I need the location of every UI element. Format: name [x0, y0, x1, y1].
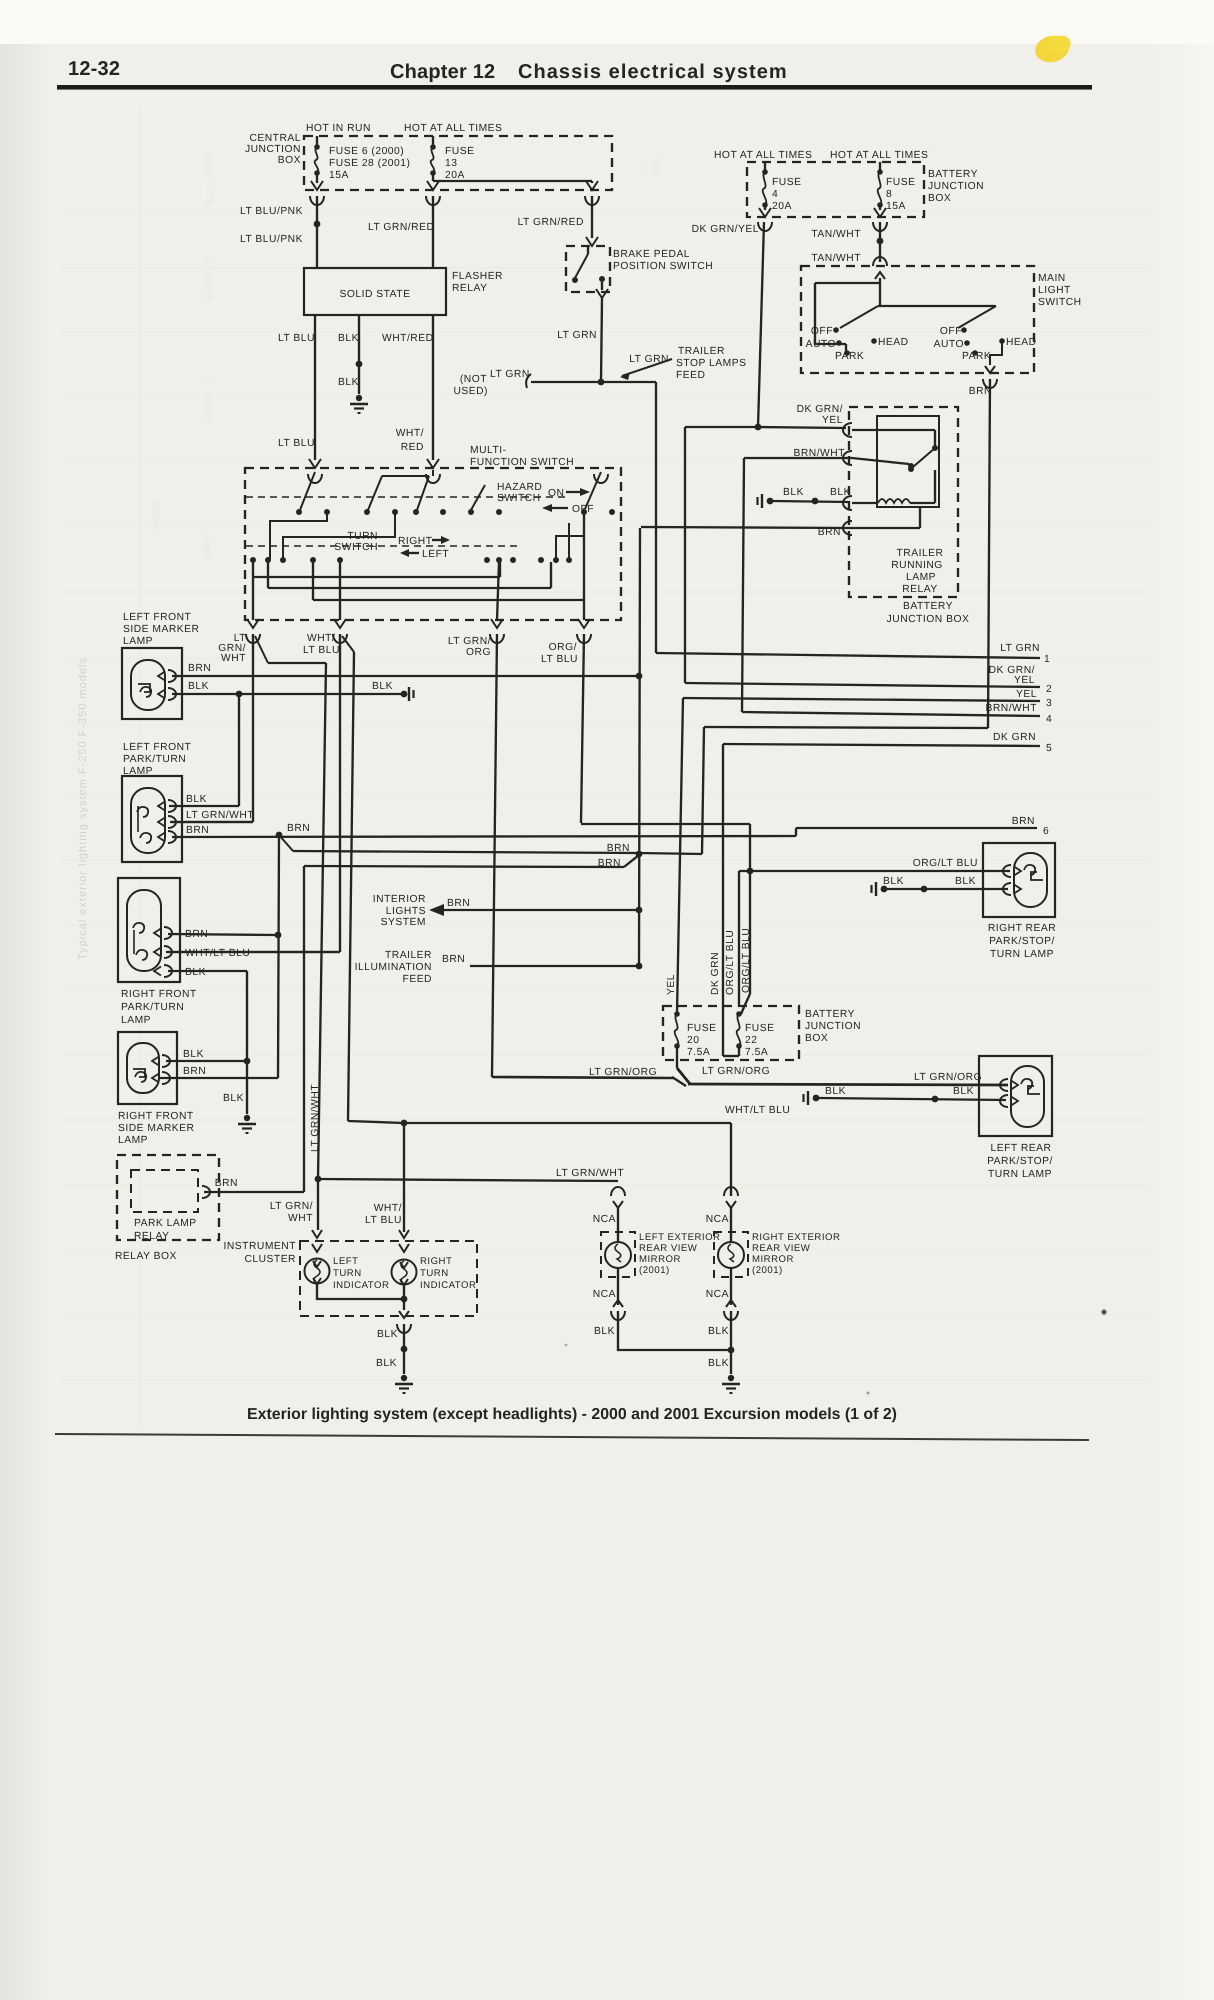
svg-text:BRN: BRN: [186, 825, 209, 836]
svg-text:LT GRN/RED: LT GRN/RED: [518, 217, 584, 228]
svg-text:LT GRN: LT GRN: [557, 330, 597, 341]
svg-text:DK GRN/YEL: DK GRN/YEL: [692, 224, 759, 235]
svg-text:BLK: BLK: [955, 876, 976, 887]
svg-text:RIGHT REAR: RIGHT REAR: [988, 923, 1056, 934]
svg-text:INTERIOR: INTERIOR: [373, 894, 426, 905]
svg-text:(2001): (2001): [639, 1265, 670, 1276]
svg-text:7.5A: 7.5A: [687, 1047, 710, 1058]
svg-text:AUTO: AUTO: [934, 339, 964, 350]
svg-text:FUSE: FUSE: [445, 146, 474, 157]
svg-text:POSITION SWITCH: POSITION SWITCH: [613, 261, 713, 272]
svg-text:BRN: BRN: [447, 898, 470, 909]
svg-text:RED: RED: [401, 442, 424, 453]
svg-text:RELAY BOX: RELAY BOX: [115, 1251, 177, 1262]
svg-text:JUNCTION BOX: JUNCTION BOX: [887, 614, 970, 625]
svg-text:WHT/: WHT/: [374, 1203, 402, 1214]
svg-text:INDICATOR: INDICATOR: [420, 1280, 476, 1291]
svg-text:SWITCH: SWITCH: [334, 542, 378, 553]
svg-text:FUSE: FUSE: [745, 1023, 774, 1034]
svg-text:LAMP: LAMP: [118, 1135, 148, 1146]
svg-text:BOX: BOX: [278, 155, 301, 166]
svg-text:LIGHT: LIGHT: [1038, 285, 1071, 296]
svg-text:FUNCTION SWITCH: FUNCTION SWITCH: [470, 457, 574, 468]
svg-text:OFF: OFF: [940, 326, 962, 337]
svg-text:12-32: 12-32: [68, 58, 120, 80]
svg-text:FLASHER: FLASHER: [452, 271, 503, 282]
svg-text:5: 5: [1046, 743, 1052, 754]
svg-text:SWITCH: SWITCH: [497, 493, 541, 504]
svg-text:BLK: BLK: [376, 1358, 397, 1369]
svg-text:HOT AT ALL TIMES: HOT AT ALL TIMES: [714, 150, 812, 161]
svg-text:PARK: PARK: [835, 351, 864, 362]
svg-text:WHT/: WHT/: [396, 428, 424, 439]
svg-text:TRAILER: TRAILER: [678, 346, 725, 357]
svg-text:MAIN: MAIN: [1038, 273, 1066, 284]
svg-text:13: 13: [445, 158, 457, 169]
svg-text:FUSE 6 (2000): FUSE 6 (2000): [329, 146, 404, 157]
svg-text:BOX: BOX: [805, 1033, 828, 1044]
svg-text:1: 1: [1044, 654, 1050, 665]
svg-text:LEFT: LEFT: [333, 1256, 358, 1267]
svg-text:BRN: BRN: [598, 858, 621, 869]
svg-text:ILLUMINATION: ILLUMINATION: [355, 962, 432, 973]
svg-text:BLK: BLK: [783, 487, 804, 498]
svg-text:SIDE MARKER: SIDE MARKER: [123, 624, 199, 635]
svg-text:YEL: YEL: [1014, 675, 1035, 686]
svg-text:LEFT REAR: LEFT REAR: [991, 1143, 1052, 1154]
svg-text:RELAY: RELAY: [902, 584, 938, 595]
svg-text:ln: ln: [930, 143, 938, 152]
svg-text:LAMP: LAMP: [121, 1015, 151, 1026]
svg-text:YEL: YEL: [1016, 689, 1037, 700]
svg-text:LT GRN: LT GRN: [490, 369, 530, 380]
svg-text:FUSE: FUSE: [772, 177, 801, 188]
svg-text:LT BLU/PNK: LT BLU/PNK: [240, 206, 303, 217]
svg-text:BLK: BLK: [825, 1086, 846, 1097]
svg-text:TAN/WHT: TAN/WHT: [811, 253, 861, 264]
svg-text:CENTRAL: CENTRAL: [249, 133, 301, 144]
svg-text:REAR VIEW: REAR VIEW: [639, 1243, 698, 1254]
svg-text:ORG/: ORG/: [549, 642, 577, 653]
svg-text:BLK: BLK: [594, 1326, 615, 1337]
svg-text:SMRT: SMRT: [202, 529, 213, 560]
svg-text:BRN: BRN: [188, 663, 211, 674]
svg-text:BLK: BLK: [183, 1049, 204, 1060]
svg-text:LT GRN/ORG: LT GRN/ORG: [702, 1066, 770, 1077]
svg-text:YEL: YEL: [666, 974, 677, 995]
svg-text:BLK: BLK: [188, 681, 209, 692]
svg-text:6: 6: [1043, 826, 1049, 837]
svg-text:RRL: RRL: [652, 153, 663, 175]
svg-text:WHT: WHT: [221, 653, 246, 664]
svg-text:BRN: BRN: [1012, 816, 1035, 827]
svg-text:BLK: BLK: [223, 1093, 244, 1104]
svg-text:Typical exterior lighting syst: Typical exterior lighting system F-250 F…: [77, 657, 89, 960]
svg-text:FUSE: FUSE: [886, 177, 915, 188]
svg-text:BRAKE PEDAL: BRAKE PEDAL: [613, 249, 690, 260]
svg-text:4: 4: [1046, 714, 1052, 725]
svg-text:JUNCTION: JUNCTION: [805, 1021, 861, 1032]
svg-text:WHT/: WHT/: [307, 633, 335, 644]
svg-text:OFF: OFF: [811, 326, 833, 337]
svg-text:RIGHT EXTERIOR: RIGHT EXTERIOR: [752, 1232, 840, 1243]
svg-text:PARK/TURN: PARK/TURN: [121, 1002, 184, 1013]
svg-text:FEED: FEED: [676, 370, 705, 381]
svg-text:DK GRN: DK GRN: [993, 732, 1036, 743]
svg-text:LT GRN/WHT: LT GRN/WHT: [186, 810, 254, 821]
svg-text:JUNCTION: JUNCTION: [245, 144, 301, 155]
svg-text:TRAILER: TRAILER: [385, 950, 432, 961]
svg-text:USED): USED): [453, 386, 488, 397]
svg-text:PARK: PARK: [962, 351, 991, 362]
svg-text:BLK: BLK: [377, 1329, 398, 1340]
svg-text:RUNNING: RUNNING: [891, 560, 943, 571]
svg-text:LT BLU: LT BLU: [365, 1215, 402, 1226]
svg-text:DK GRN/: DK GRN/: [797, 404, 843, 415]
svg-text:HEAD: HEAD: [878, 337, 909, 348]
svg-text:RIGHT: RIGHT: [398, 536, 433, 547]
svg-text:YEL: YEL: [822, 415, 843, 426]
svg-text:BATTERY: BATTERY: [903, 601, 953, 612]
svg-text:LAMP: LAMP: [906, 572, 936, 583]
svg-text:NCA: NCA: [593, 1214, 616, 1225]
svg-text:7.5A: 7.5A: [745, 1047, 768, 1058]
svg-text:LT BLU: LT BLU: [541, 654, 578, 665]
svg-text:CLUSTER: CLUSTER: [244, 1254, 296, 1265]
svg-text:Exterior lighting system (exce: Exterior lighting system (except headlig…: [247, 1406, 897, 1423]
svg-text:TRAILER: TRAILER: [897, 548, 944, 559]
svg-text:LT GRN/WHT: LT GRN/WHT: [310, 1084, 321, 1152]
svg-text:NCA: NCA: [706, 1214, 729, 1225]
svg-text:BLK: BLK: [372, 681, 393, 692]
svg-text:ORG: ORG: [466, 647, 491, 658]
svg-text:WHT/LT BLU: WHT/LT BLU: [725, 1105, 790, 1116]
svg-text:TURN: TURN: [333, 1268, 362, 1279]
svg-text:BLK: BLK: [708, 1326, 729, 1337]
svg-text:LT GRN/ORG: LT GRN/ORG: [589, 1067, 657, 1078]
svg-text:LT BLU: LT BLU: [303, 645, 340, 656]
svg-text:BLK: BLK: [338, 333, 359, 344]
svg-text:SIDE MARKER: SIDE MARKER: [118, 1123, 194, 1134]
svg-text:MOOR T: MOOR T: [205, 256, 216, 300]
svg-text:LT GRN/ORG: LT GRN/ORG: [914, 1072, 982, 1083]
svg-text:BRN/WHT: BRN/WHT: [985, 703, 1037, 714]
svg-text:SWITCH: SWITCH: [1038, 297, 1082, 308]
svg-text:INSTRUMENT: INSTRUMENT: [224, 1241, 297, 1252]
svg-text:NCA: NCA: [593, 1289, 616, 1300]
svg-text:LT GRN: LT GRN: [1000, 643, 1040, 654]
svg-text:REAR VIEW: REAR VIEW: [752, 1243, 811, 1254]
svg-text:HEAD: HEAD: [1006, 337, 1037, 348]
svg-text:FEED: FEED: [403, 974, 432, 985]
svg-text:3: 3: [1046, 698, 1052, 709]
svg-text:BLK: BLK: [708, 1358, 729, 1369]
svg-text:NCA: NCA: [706, 1289, 729, 1300]
svg-text:HOT AT ALL TIMES: HOT AT ALL TIMES: [404, 123, 502, 134]
svg-text:LAMP: LAMP: [123, 636, 153, 647]
svg-text:FUSE 28 (2001): FUSE 28 (2001): [329, 158, 410, 169]
svg-text:(2001): (2001): [752, 1265, 783, 1276]
svg-text:BRN: BRN: [183, 1066, 206, 1077]
svg-text:20A: 20A: [445, 170, 465, 181]
svg-text:INDICATOR: INDICATOR: [333, 1280, 389, 1291]
svg-text:TURN LAMP: TURN LAMP: [988, 1169, 1052, 1180]
svg-text:22: 22: [745, 1035, 757, 1046]
svg-text:8: 8: [886, 189, 892, 200]
svg-text:DK GRN: DK GRN: [710, 952, 721, 995]
svg-text:HAZARD: HAZARD: [497, 482, 542, 493]
svg-text:(NOT: (NOT: [460, 374, 487, 385]
svg-text:ROOF L: ROOF L: [204, 379, 215, 420]
svg-text:15A: 15A: [886, 201, 906, 212]
svg-text:WHT/RED: WHT/RED: [382, 333, 434, 344]
svg-text:ORG/LT BLU: ORG/LT BLU: [913, 858, 978, 869]
svg-text:STOP LAMPS: STOP LAMPS: [676, 358, 746, 369]
svg-text:AUTO: AUTO: [806, 339, 836, 350]
svg-text:TURN LAMP: TURN LAMP: [990, 949, 1054, 960]
svg-text:BRN: BRN: [969, 386, 992, 397]
svg-text:LT GRN/RED: LT GRN/RED: [368, 222, 434, 233]
svg-text:2: 2: [1046, 684, 1052, 695]
svg-text:rt: rt: [640, 163, 647, 172]
svg-text:PARK/TURN: PARK/TURN: [123, 754, 186, 765]
svg-text:LEFT FRONT: LEFT FRONT: [123, 612, 192, 623]
svg-text:BLK: BLK: [883, 876, 904, 887]
svg-text:Chassis electrical system: Chassis electrical system: [518, 61, 788, 83]
svg-text:BRN: BRN: [607, 843, 630, 854]
svg-text:BATTERY: BATTERY: [928, 169, 978, 180]
svg-text:20A: 20A: [772, 201, 792, 212]
svg-text:RELAY: RELAY: [452, 283, 488, 294]
svg-text:MIRROR: MIRROR: [639, 1254, 681, 1265]
svg-text:LT BLU/PNK: LT BLU/PNK: [240, 234, 303, 245]
svg-text:LEFT: LEFT: [422, 549, 449, 560]
svg-text:HOT AT ALL TIMES: HOT AT ALL TIMES: [830, 150, 928, 161]
svg-text:RIGHT FRONT: RIGHT FRONT: [121, 989, 197, 1000]
svg-text:WHT/LT BLU: WHT/LT BLU: [185, 948, 250, 959]
svg-text:BULL PDR: BULL PDR: [205, 151, 216, 205]
svg-text:RELAY: RELAY: [134, 1231, 170, 1242]
svg-text:LEFT EXTERIOR: LEFT EXTERIOR: [639, 1232, 721, 1243]
svg-text:LT GRN/: LT GRN/: [448, 636, 491, 647]
svg-text:15A: 15A: [329, 170, 349, 181]
svg-text:ORG/LT BLU: ORG/LT BLU: [741, 928, 752, 993]
svg-text:HOT IN RUN: HOT IN RUN: [306, 123, 371, 134]
svg-text:4: 4: [772, 189, 778, 200]
svg-text:ORG/LT BLU: ORG/LT BLU: [725, 930, 736, 995]
svg-text:MIRROR: MIRROR: [752, 1254, 794, 1265]
svg-text:TAN/WHT: TAN/WHT: [811, 229, 861, 240]
svg-text:BATTERY: BATTERY: [805, 1009, 855, 1020]
svg-text:PARK/STOP/: PARK/STOP/: [987, 1156, 1053, 1167]
svg-text:LT BLU: LT BLU: [278, 333, 315, 344]
svg-text:FUSE: FUSE: [687, 1023, 716, 1034]
svg-text:PARK/STOP/: PARK/STOP/: [989, 936, 1055, 947]
svg-text:WHT: WHT: [288, 1213, 313, 1224]
svg-text:BOX: BOX: [928, 193, 951, 204]
svg-text:Chapter 12: Chapter 12: [390, 61, 495, 83]
svg-text:LT BLU: LT BLU: [278, 438, 315, 449]
svg-text:SYSTEM: SYSTEM: [381, 917, 426, 928]
svg-text:BRN: BRN: [287, 823, 310, 834]
svg-text:JUNCTION: JUNCTION: [928, 181, 984, 192]
svg-text:BLK: BLK: [830, 487, 851, 498]
svg-text:LIGHTS: LIGHTS: [386, 906, 426, 917]
svg-text:TURN: TURN: [420, 1268, 449, 1279]
svg-text:SOLID STATE: SOLID STATE: [340, 289, 411, 300]
svg-text:BLK: BLK: [953, 1086, 974, 1097]
svg-text:RIGHT FRONT: RIGHT FRONT: [118, 1111, 194, 1122]
svg-text:BLK: BLK: [185, 967, 206, 978]
svg-text:LEFT FRONT: LEFT FRONT: [123, 742, 192, 753]
svg-text:BRN: BRN: [442, 954, 465, 965]
svg-text:BLK: BLK: [186, 794, 207, 805]
svg-text:LT GRN/: LT GRN/: [270, 1201, 313, 1212]
svg-text:RIGHT: RIGHT: [420, 1256, 452, 1267]
svg-text:LT GRN/WHT: LT GRN/WHT: [556, 1168, 624, 1179]
svg-text:20: 20: [687, 1035, 699, 1046]
svg-text:MULTI-: MULTI-: [470, 445, 507, 456]
svg-text:BLK: BLK: [338, 377, 359, 388]
svg-text:PARK LAMP: PARK LAMP: [134, 1218, 197, 1229]
svg-text:LT GRN: LT GRN: [629, 354, 669, 365]
